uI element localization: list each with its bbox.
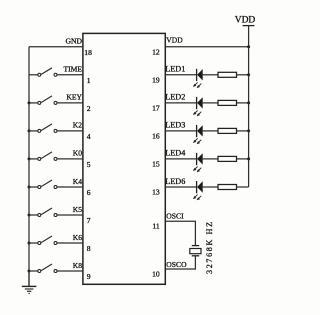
svg-text:12: 12 <box>152 47 160 56</box>
svg-text:LED1: LED1 <box>165 65 185 74</box>
wire: VDD rail <box>248 47 250 187</box>
wire: pin 10 OSCO <box>165 256 195 269</box>
svg-text:8: 8 <box>87 244 91 253</box>
svg-text:6: 6 <box>87 188 91 197</box>
wire: pin 18 GND to bus <box>29 46 83 48</box>
switch S4 (K0) group <box>28 152 83 161</box>
svg-text:16: 16 <box>152 132 160 141</box>
node: junction pin12/rail <box>247 45 250 48</box>
svg-text:11: 11 <box>152 222 160 231</box>
svg-text:LED2: LED2 <box>165 93 185 102</box>
svg-text:KEY: KEY <box>66 93 82 102</box>
svg-text:19: 19 <box>152 75 160 84</box>
svg-text:LED6: LED6 <box>165 177 185 186</box>
svg-text:GND: GND <box>66 37 83 46</box>
svg-text:OSCO: OSCO <box>166 260 187 269</box>
svg-text:K0: K0 <box>73 149 82 158</box>
svg-text:13: 13 <box>152 188 160 197</box>
svg-text:K8: K8 <box>73 261 82 270</box>
wire: pin 12 VDD to rail <box>165 46 248 48</box>
svg-text:2: 2 <box>87 104 91 113</box>
svg-text:15: 15 <box>152 160 160 169</box>
svg-text:32768K HZ: 32768K HZ <box>205 220 214 274</box>
svg-text:VDD: VDD <box>235 15 256 25</box>
svg-text:5: 5 <box>87 160 91 169</box>
svg-text:K5: K5 <box>73 205 82 214</box>
svg-text:LED4: LED4 <box>165 149 185 158</box>
svg-text:K4: K4 <box>73 177 82 186</box>
svg-text:9: 9 <box>87 272 91 281</box>
switch S8 (K8) group <box>28 264 83 273</box>
wire: left key bus from GND row to ground <box>28 47 30 287</box>
ground symbol <box>22 271 37 293</box>
switch S6 (K5) group <box>28 208 83 217</box>
switch S1 (TIME) group <box>29 68 83 77</box>
switch S5 (K4) group <box>28 180 83 189</box>
LED LED2 with resistor row <box>165 97 250 116</box>
VDD power symbol <box>235 15 256 46</box>
svg-text:OSCI: OSCI <box>166 212 184 221</box>
IC U1 (18-pin controller) <box>83 33 165 284</box>
svg-text:4: 4 <box>87 132 91 141</box>
svg-text:10: 10 <box>152 269 160 278</box>
svg-text:7: 7 <box>87 216 91 225</box>
crystal Y1 32768K HZ <box>190 246 201 256</box>
svg-text:TIME: TIME <box>63 65 82 74</box>
wire: pin 11 OSCI <box>165 221 195 245</box>
svg-text:K6: K6 <box>73 233 82 242</box>
LED LED6 with resistor row <box>165 181 248 200</box>
LED LED1 with resistor row <box>165 69 250 88</box>
switch S7 (K6) group <box>28 236 83 245</box>
svg-text:K2: K2 <box>73 121 82 130</box>
svg-text:1: 1 <box>87 76 91 85</box>
svg-text:18: 18 <box>84 48 92 57</box>
LED LED3 with resistor row <box>165 125 250 144</box>
svg-text:LED3: LED3 <box>165 121 185 130</box>
svg-text:17: 17 <box>152 104 160 113</box>
switch S3 (K2) group <box>28 124 83 132</box>
switch S2 (KEY) group <box>28 96 83 105</box>
svg-text:VDD: VDD <box>166 36 183 45</box>
LED LED4 with resistor row <box>165 153 250 172</box>
